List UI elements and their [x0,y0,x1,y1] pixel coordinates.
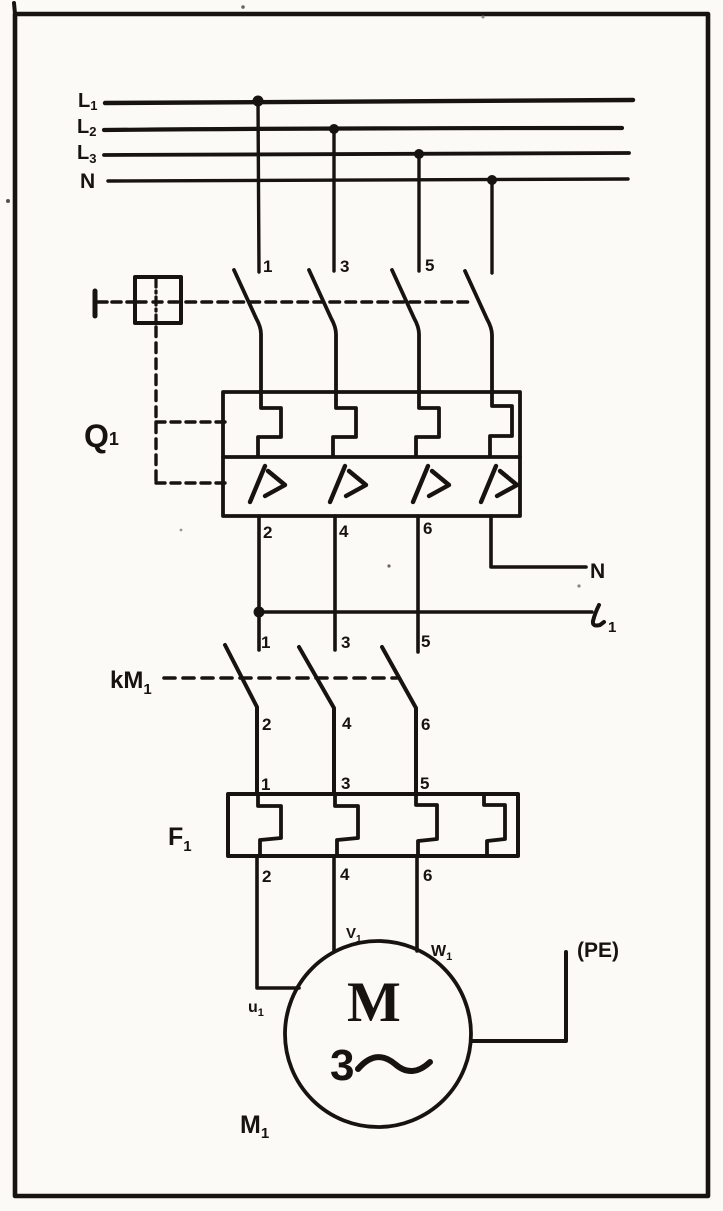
label l1 node [593,605,616,636]
motor M1 circle [285,941,471,1127]
dashed linkage branch upper [156,420,227,423]
KM1 dashed actuator line [164,676,397,680]
Q1 pole 3 blade and latch [392,270,439,456]
Q1 pole 2 blade and latch [309,270,356,456]
svg-text:2: 2 [263,523,272,542]
Q1 thermal element I> pole 3 [413,466,449,502]
junction dot node L1 out [254,607,265,618]
svg-text:2: 2 [262,867,271,886]
power rail L1 [105,100,633,103]
dashed linkage branch lower [156,481,227,484]
svg-text:2: 2 [262,715,271,734]
power rail N [108,179,628,181]
junction dot on L1 [253,96,264,107]
dashed linkage handle to operator box [112,300,133,304]
svg-text:5: 5 [421,632,430,651]
dashed linkage operator box down [154,327,157,486]
svg-text:1: 1 [263,257,272,276]
svg-text:6: 6 [423,519,432,538]
wire L3 drop to Q1 pole 3 [417,154,420,271]
junction dot on L3 [414,149,424,159]
F1 overload box [228,794,518,856]
svg-text:N: N [590,560,605,583]
svg-text:6: 6 [421,715,430,734]
svg-text:3: 3 [341,633,350,652]
Q1 breaker outline box [223,392,520,516]
dashed trip line to blades [186,300,474,304]
KM1 contact 1 blade [225,645,257,794]
KM1 contact 3 blade [382,647,416,794]
Q1 pole 4 blade and latch [465,271,512,456]
wire L1 drop to Q1 pole 1 [258,101,259,272]
scan speck [241,5,245,9]
svg-text:N: N [80,170,95,193]
svg-text:4: 4 [339,522,349,541]
svg-text:6: 6 [423,866,432,885]
svg-text:5: 5 [420,774,429,793]
wire F1 pole2 to motor V1 [332,856,336,952]
operator box [135,277,181,323]
svg-text:3: 3 [340,257,349,276]
Q1 thermal element I> pole 2 [330,466,366,502]
svg-text:M: M [347,971,401,1034]
svg-text:(PE): (PE) [577,939,619,962]
svg-text:3: 3 [341,774,350,793]
motor tilde symbol [358,1057,430,1071]
Q1 pole 1 blade and latch [234,270,281,456]
F1 heater element pole 1 [258,794,281,856]
scan speck [6,199,10,203]
wire L2 drop to Q1 pole 2 [332,129,335,271]
manual operator handle [95,291,107,316]
operator box center dash-dot vertical [154,279,157,322]
F1 heater element pole 3 [416,794,437,856]
junction dot on N [487,175,497,185]
wire F1 pole3 to motor W1 [415,856,419,951]
junction dot on L2 [329,124,339,134]
svg-text:1: 1 [261,775,270,794]
wire motor to PE [472,952,566,1041]
svg-text:3: 3 [330,1041,354,1090]
svg-text:1: 1 [261,633,270,652]
Q1 box divider [223,455,520,459]
wire node to L1 label [259,610,592,613]
wire Q1 pole3 out [416,516,420,652]
power rail L2 [104,128,622,130]
F1 heater element pole 2 [335,794,358,856]
wire Q1 pole1 out to node [257,516,261,650]
Q1 thermal element I> pole 1 [250,466,285,502]
wire Q1 pole4 out to N [491,516,586,567]
svg-text:4: 4 [342,714,352,733]
F1 heater element spare [484,794,505,856]
KM1 contact 2 blade [299,647,334,794]
Q1 thermal element I> pole 4 [481,466,517,502]
power rail L3 [104,153,629,155]
operator box dashed horizontal [137,300,179,303]
wire Q1 pole2 out [333,516,337,650]
wire N drop to Q1 pole 4 [490,180,493,273]
wire F1 pole1 to motor U1 [257,856,299,988]
svg-text:5: 5 [425,256,434,275]
svg-text:1: 1 [608,619,616,636]
svg-text:4: 4 [340,865,350,884]
